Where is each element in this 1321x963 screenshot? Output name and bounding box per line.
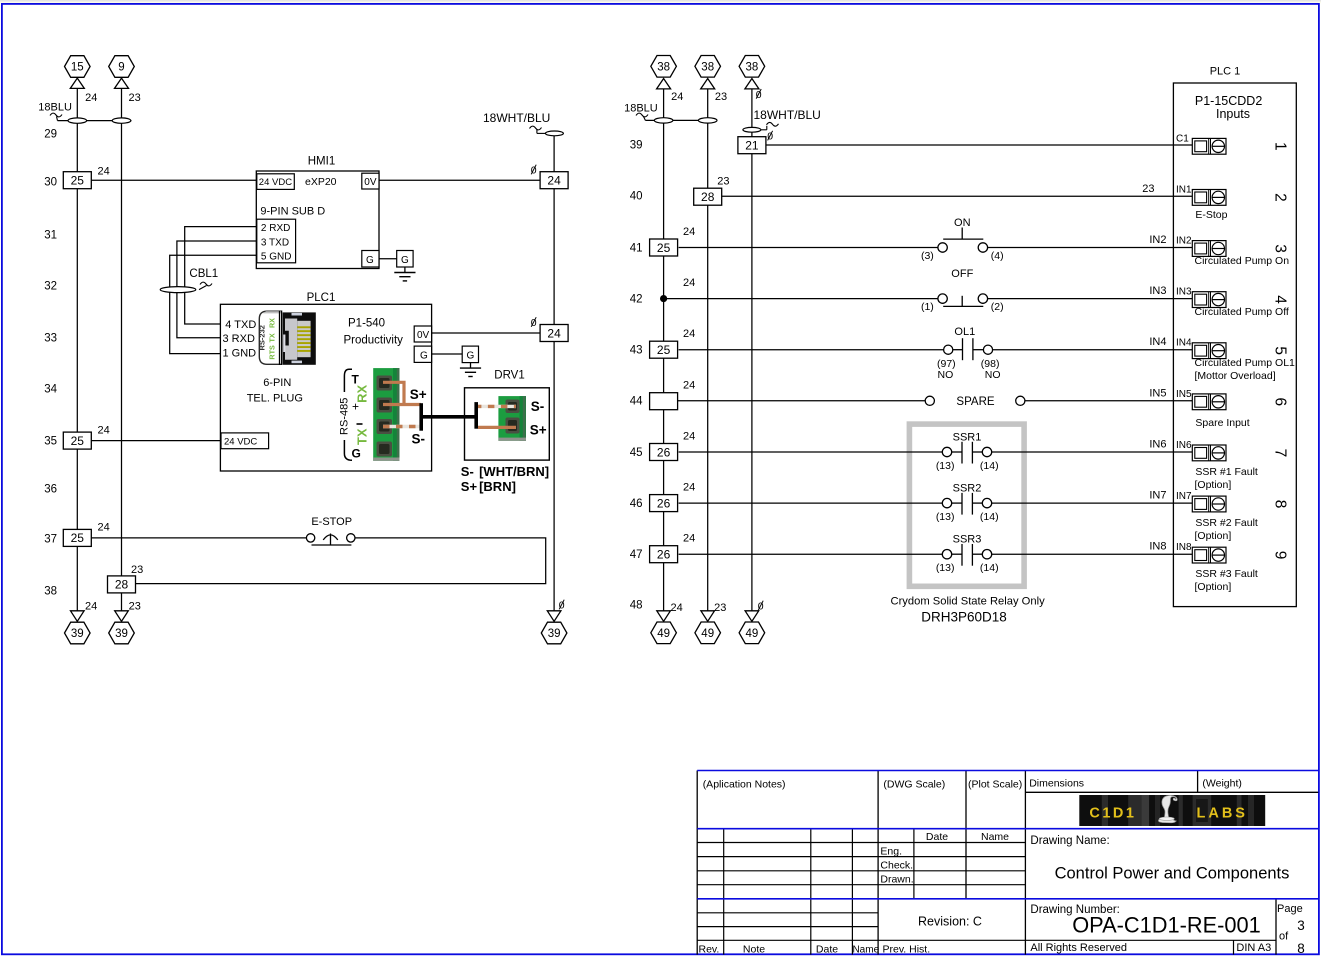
svg-text:25: 25 xyxy=(71,531,85,545)
svg-text:IN1: IN1 xyxy=(1176,184,1192,195)
svg-text:Page: Page xyxy=(1277,903,1303,915)
source arrow wire 24 from page 15 xyxy=(65,56,91,78)
wire PLC G to ground G xyxy=(432,353,463,355)
svg-text:24: 24 xyxy=(85,601,97,613)
svg-text:HMI1: HMI1 xyxy=(308,156,335,168)
C1D1 LABS logo xyxy=(1079,795,1265,826)
source arrow wire 23 from page 9 xyxy=(109,56,135,78)
svg-text:23: 23 xyxy=(714,602,726,614)
svg-text:NO: NO xyxy=(938,369,954,381)
svg-text:Drawn.: Drawn. xyxy=(880,874,913,886)
svg-text:E-Stop: E-Stop xyxy=(1195,209,1227,221)
svg-text:Eng.: Eng. xyxy=(880,846,902,858)
svg-text:Circulated Pump Off: Circulated Pump Off xyxy=(1195,306,1289,318)
svg-text:36: 36 xyxy=(44,484,57,496)
svg-text:G: G xyxy=(420,351,428,362)
svg-text:24: 24 xyxy=(547,174,561,188)
svg-text:IN3: IN3 xyxy=(1149,285,1166,297)
svg-text:IN8: IN8 xyxy=(1176,542,1192,553)
svg-text:Dimensions: Dimensions xyxy=(1029,777,1084,789)
svg-text:IN2: IN2 xyxy=(1176,236,1192,247)
wire: left rail net 24 xyxy=(76,88,78,610)
svg-text:RX: RX xyxy=(355,384,370,402)
svg-text:Check.: Check. xyxy=(880,860,913,872)
svg-text:24: 24 xyxy=(671,602,683,614)
svg-text:SSR3: SSR3 xyxy=(953,534,982,546)
wire S- white/brown (PLC side) xyxy=(383,425,421,428)
svg-text:[Mottor Overload]: [Mottor Overload] xyxy=(1195,370,1276,382)
svg-text:P1-540: P1-540 xyxy=(348,318,385,330)
svg-text:(1): (1) xyxy=(921,301,934,313)
svg-text:(14): (14) xyxy=(980,460,999,472)
rung 41 wire 24 to ON button xyxy=(679,247,938,249)
reference box 25 (row 30) xyxy=(63,172,91,189)
svg-text:(14): (14) xyxy=(980,562,999,574)
svg-text:OPA-C1D1-RE-001: OPA-C1D1-RE-001 xyxy=(1072,912,1261,937)
ground symbol (HMI) xyxy=(404,267,406,273)
svg-text:40: 40 xyxy=(630,191,643,203)
svg-text:46: 46 xyxy=(630,498,643,510)
svg-text:IN8: IN8 xyxy=(1149,541,1166,553)
svg-text:7: 7 xyxy=(1271,449,1288,458)
svg-text:6: 6 xyxy=(1271,397,1288,406)
rung 33 wire PLC 0V to net 0 xyxy=(432,332,540,334)
svg-text:(4): (4) xyxy=(991,250,1004,262)
svg-text:OL1: OL1 xyxy=(954,326,975,338)
svg-text:25: 25 xyxy=(71,174,85,188)
reference box 26 (row 47) xyxy=(650,546,678,563)
svg-text:29: 29 xyxy=(44,129,57,141)
rung 40 wire 23 to PLC IN1 xyxy=(722,195,1193,197)
wire HMI 2RXD to PLC 4TXD xyxy=(185,227,257,324)
rung 44 wire 24 to SPARE xyxy=(677,400,925,402)
svg-text:33: 33 xyxy=(44,333,57,345)
svg-text:24: 24 xyxy=(98,166,110,178)
svg-text:4 TXD: 4 TXD xyxy=(225,319,256,331)
svg-text:IN5: IN5 xyxy=(1149,387,1166,399)
svg-text:3 RXD: 3 RXD xyxy=(223,333,255,345)
svg-text:IN2: IN2 xyxy=(1149,234,1166,246)
svg-text:LABS: LABS xyxy=(1197,805,1248,821)
svg-text:28: 28 xyxy=(115,578,129,592)
svg-text:24: 24 xyxy=(683,379,695,391)
svg-text:38: 38 xyxy=(44,586,57,598)
svg-text:23: 23 xyxy=(131,564,143,576)
svg-text:24: 24 xyxy=(683,277,695,289)
svg-text:SSR #2 Fault: SSR #2 Fault xyxy=(1195,517,1258,529)
svg-text:(13): (13) xyxy=(936,460,955,472)
svg-text:eXP20: eXP20 xyxy=(305,176,337,188)
svg-text:Prev. Hist.: Prev. Hist. xyxy=(883,944,931,956)
svg-text:24: 24 xyxy=(671,91,683,103)
wire: rail net 23 (right section) xyxy=(707,89,709,611)
svg-text:23: 23 xyxy=(129,92,141,104)
svg-text:IN4: IN4 xyxy=(1176,338,1192,349)
reference box 26 (row 45) xyxy=(650,444,678,461)
svg-text:Date: Date xyxy=(816,944,838,956)
svg-text:OFF: OFF xyxy=(951,268,973,280)
PLC input card P1-15CDD2 xyxy=(1173,83,1296,607)
svg-text:49: 49 xyxy=(657,628,670,640)
wire SPARE to PLC IN5 xyxy=(1025,400,1192,402)
svg-text:39: 39 xyxy=(71,628,84,640)
svg-text:IN6: IN6 xyxy=(1149,439,1166,451)
wire: rail net 0 (right section) xyxy=(751,89,753,611)
svg-text:of: of xyxy=(1279,931,1289,943)
wire HMI G to ground G xyxy=(379,258,397,260)
svg-text:G: G xyxy=(352,447,361,461)
thick shield wire to DRV1 xyxy=(421,415,476,419)
svg-text:18BLU: 18BLU xyxy=(624,102,658,114)
svg-text:PLC 1: PLC 1 xyxy=(1210,66,1241,78)
svg-text:IN7: IN7 xyxy=(1149,490,1166,502)
svg-text:Name: Name xyxy=(852,945,879,956)
svg-text:18BLU: 18BLU xyxy=(38,102,72,114)
svg-text:38: 38 xyxy=(657,62,670,74)
svg-text:G: G xyxy=(401,255,409,266)
wire OL1 to PLC IN4 xyxy=(993,349,1193,351)
svg-text:Crydom Solid State Relay Only: Crydom Solid State Relay Only xyxy=(890,596,1045,608)
svg-text:Note: Note xyxy=(743,944,765,956)
svg-text:30: 30 xyxy=(44,177,57,189)
svg-text:34: 34 xyxy=(44,384,57,396)
svg-text:39: 39 xyxy=(115,628,128,640)
svg-text:Circulated Pump OL1: Circulated Pump OL1 xyxy=(1195,357,1296,369)
svg-text:18WHT/BLU: 18WHT/BLU xyxy=(483,111,550,125)
svg-text:26: 26 xyxy=(657,548,671,562)
svg-text:[Option]: [Option] xyxy=(1195,479,1232,491)
reference box 28 (row 38) xyxy=(108,576,136,593)
shield bar (PLC side) xyxy=(419,403,423,431)
svg-text:SPARE: SPARE xyxy=(956,396,994,408)
svg-text:24: 24 xyxy=(547,326,561,340)
svg-text:S+: S+ xyxy=(530,422,547,437)
svg-text:C1: C1 xyxy=(1176,133,1189,144)
svg-text:18WHT/BLU: 18WHT/BLU xyxy=(754,108,821,122)
svg-text:DRH3P60D18: DRH3P60D18 xyxy=(921,610,1007,625)
svg-text:24 VDC: 24 VDC xyxy=(224,436,257,447)
title block xyxy=(696,771,698,955)
reference box 25 (row 41) xyxy=(650,239,678,256)
svg-text:38: 38 xyxy=(746,62,759,74)
svg-text:Date: Date xyxy=(926,831,948,843)
svg-text:(14): (14) xyxy=(980,511,999,523)
svg-text:24: 24 xyxy=(98,522,110,534)
HMI1 terminal 0V xyxy=(362,173,379,189)
svg-text:25: 25 xyxy=(71,434,85,448)
wire E-STOP to rung 38 xyxy=(136,538,546,584)
svg-text:Name: Name xyxy=(981,831,1009,843)
svg-text:(13): (13) xyxy=(936,562,955,574)
svg-text:C1D1: C1D1 xyxy=(1089,805,1136,821)
rung 30 wire 24 to HMI1 xyxy=(91,179,256,181)
svg-text:24: 24 xyxy=(683,328,695,340)
svg-text:SSR #1 Fault: SSR #1 Fault xyxy=(1195,466,1258,478)
svg-text:0V: 0V xyxy=(364,177,377,188)
svg-text:IN6: IN6 xyxy=(1176,440,1192,451)
RS-485 port bracket xyxy=(344,369,352,392)
rung 45 wire 24 to SSR1 xyxy=(679,451,943,453)
svg-text:2: 2 xyxy=(1271,193,1288,202)
svg-text:IN5: IN5 xyxy=(1176,389,1192,400)
svg-text:(Weight): (Weight) xyxy=(1202,777,1241,789)
reference box 24 (row 30, net 0) xyxy=(540,172,568,189)
svg-text:0V: 0V xyxy=(417,330,430,341)
svg-text:S+: S+ xyxy=(410,387,427,402)
RJ45 6-pin telephone plug graphic xyxy=(259,311,281,364)
svg-text:24: 24 xyxy=(683,482,695,494)
svg-text:23: 23 xyxy=(715,91,727,103)
svg-text:[WHT/BRN]: [WHT/BRN] xyxy=(479,464,549,479)
svg-text:S-: S- xyxy=(412,432,426,447)
svg-text:IN3: IN3 xyxy=(1176,287,1192,298)
wire S+ copper (DRV side) xyxy=(478,426,516,429)
svg-text:PLC1: PLC1 xyxy=(307,292,336,304)
svg-text:Revision: C: Revision: C xyxy=(918,915,982,929)
svg-text:24: 24 xyxy=(683,226,695,238)
shield bar (DRV side) xyxy=(474,402,478,429)
svg-text:S+: S+ xyxy=(461,479,478,494)
svg-text:21: 21 xyxy=(745,139,759,153)
svg-text:3: 3 xyxy=(1297,918,1305,933)
svg-text:RX: RX xyxy=(267,318,276,328)
svg-text:(Plot Scale): (Plot Scale) xyxy=(968,779,1022,791)
svg-text:24: 24 xyxy=(85,92,97,104)
svg-text:48: 48 xyxy=(630,600,643,612)
reference box (row 44, empty) xyxy=(650,393,678,410)
wire: rail net 24 (right section) xyxy=(663,89,665,611)
svg-text:24 VDC: 24 VDC xyxy=(259,177,292,188)
svg-text:Control Power and Components: Control Power and Components xyxy=(1055,865,1290,883)
svg-text:TX: TX xyxy=(355,428,370,445)
svg-text:Circulated Pump On: Circulated Pump On xyxy=(1195,255,1290,267)
svg-text:ON: ON xyxy=(954,217,971,229)
svg-text:39: 39 xyxy=(630,140,643,152)
reference box 25 (row 43) xyxy=(650,341,678,358)
svg-text:23: 23 xyxy=(129,601,141,613)
svg-text:(Aplication Notes): (Aplication Notes) xyxy=(703,779,786,791)
top screen strips xyxy=(0,0,1321,2)
svg-text:[BRN]: [BRN] xyxy=(479,479,516,494)
svg-text:[Option]: [Option] xyxy=(1195,581,1232,593)
svg-text:DIN A3: DIN A3 xyxy=(1236,942,1271,954)
rung 39 wire to PLC C1 xyxy=(764,144,1193,146)
svg-text:9: 9 xyxy=(1271,551,1288,560)
svg-text:26: 26 xyxy=(657,496,671,510)
rung 43 wire 24 to OL1 xyxy=(679,349,944,351)
junction dot row 42 xyxy=(660,295,667,302)
svg-text:25: 25 xyxy=(657,241,671,255)
svg-text:49: 49 xyxy=(701,628,714,640)
svg-text:47: 47 xyxy=(630,549,643,561)
rung 37 wire 24 to E-STOP xyxy=(91,537,306,539)
rung 42 wire 24 to OFF button xyxy=(664,298,938,300)
svg-text:8: 8 xyxy=(1271,500,1288,509)
svg-text:39: 39 xyxy=(548,628,561,640)
svg-text:RS-485: RS-485 xyxy=(339,398,351,435)
svg-text:NO: NO xyxy=(985,369,1001,381)
svg-text:DRV1: DRV1 xyxy=(494,369,524,381)
svg-text:Rev.: Rev. xyxy=(699,944,720,956)
svg-text:9: 9 xyxy=(118,62,124,74)
wire ON to PLC IN2 xyxy=(988,247,1193,249)
svg-text:SSR1: SSR1 xyxy=(953,432,982,444)
svg-text:25: 25 xyxy=(657,343,671,357)
svg-text:(2): (2) xyxy=(991,301,1004,313)
svg-text:(13): (13) xyxy=(936,511,955,523)
PLC1 terminal 24 VDC xyxy=(221,433,269,449)
svg-text:RS-232: RS-232 xyxy=(258,325,267,350)
svg-text:IN7: IN7 xyxy=(1176,491,1192,502)
svg-text:3: 3 xyxy=(1271,244,1288,253)
svg-text:TEL. PLUG: TEL. PLUG xyxy=(247,392,303,404)
svg-text:49: 49 xyxy=(746,628,759,640)
svg-text:6-PIN: 6-PIN xyxy=(263,377,291,389)
svg-text:15: 15 xyxy=(71,62,84,74)
wire HMI1 0V to net 0 xyxy=(379,179,540,181)
wire SSR2 to PLC IN7 xyxy=(992,502,1193,504)
wire S- white/brown (DRV side) xyxy=(478,405,516,408)
svg-text:35: 35 xyxy=(44,436,57,448)
svg-text:23: 23 xyxy=(717,176,729,188)
HMI1 terminal G xyxy=(362,251,379,268)
svg-text:24: 24 xyxy=(683,431,695,443)
reference box 25 (row 35) xyxy=(63,432,91,449)
svg-text:24: 24 xyxy=(683,533,695,545)
rung 46 wire 24 to SSR2 xyxy=(679,502,943,504)
svg-text:CBL1: CBL1 xyxy=(189,268,218,280)
svg-text:26: 26 xyxy=(657,445,671,459)
svg-text:1 GND: 1 GND xyxy=(223,348,257,360)
rung 47 wire 24 to SSR3 xyxy=(679,553,943,555)
PLC1 terminal 0V xyxy=(414,326,431,342)
svg-text:Productivity: Productivity xyxy=(344,334,404,346)
reference box 21 (row 39) xyxy=(738,137,766,154)
reference box 28 (row 40) xyxy=(694,188,722,205)
svg-text:32: 32 xyxy=(44,281,57,293)
svg-text:SSR2: SSR2 xyxy=(953,483,982,495)
spare contact SPARE xyxy=(925,396,934,405)
svg-text:Inputs: Inputs xyxy=(1216,107,1250,121)
wire OFF to PLC IN3 xyxy=(988,298,1193,300)
SSR group outline (Crydom) xyxy=(909,424,1024,586)
svg-text:1: 1 xyxy=(1271,142,1288,151)
svg-text:4: 4 xyxy=(1271,295,1288,304)
wire HMI 3TXD to PLC 3RXD xyxy=(177,241,257,338)
svg-text:TX: TX xyxy=(267,333,276,342)
wire: right rail net 0 (left section) xyxy=(553,131,555,611)
source arrows from page 38 xyxy=(651,56,677,78)
svg-text:[Option]: [Option] xyxy=(1195,530,1232,542)
svg-text:(3): (3) xyxy=(921,250,934,262)
svg-text:23: 23 xyxy=(1142,183,1154,195)
svg-text:2 RXD: 2 RXD xyxy=(261,223,290,234)
svg-text:S-: S- xyxy=(461,464,474,479)
svg-text:45: 45 xyxy=(630,447,643,459)
svg-text:T: T xyxy=(352,373,360,387)
wire S+ copper (PLC side) xyxy=(383,382,404,404)
svg-text:S-: S- xyxy=(531,399,545,414)
rung 35 wire 24 to PLC 24VDC xyxy=(91,440,221,442)
svg-text:G: G xyxy=(366,255,374,266)
svg-text:(DWG Scale): (DWG Scale) xyxy=(883,779,945,791)
svg-text:28: 28 xyxy=(701,190,715,204)
svg-text:42: 42 xyxy=(630,294,643,306)
reference box 24 (row 33, net 0) xyxy=(540,325,568,342)
svg-text:All Rights Reserved: All Rights Reserved xyxy=(1030,942,1127,954)
ground symbol (PLC) xyxy=(470,363,472,369)
svg-text:IN4: IN4 xyxy=(1149,336,1166,348)
PLC1 terminal G xyxy=(414,346,431,362)
svg-text:Drawing Name:: Drawing Name: xyxy=(1030,835,1109,847)
svg-text:5: 5 xyxy=(1271,346,1288,355)
svg-text:P1-15CDD2: P1-15CDD2 xyxy=(1195,94,1262,108)
reference box 26 (row 46) xyxy=(650,495,678,512)
svg-text:5 GND: 5 GND xyxy=(261,252,292,263)
DRV1 green terminal block xyxy=(498,396,526,441)
svg-text:44: 44 xyxy=(630,396,643,408)
svg-text:G: G xyxy=(467,351,475,362)
HMI1 terminal 24 VDC xyxy=(257,174,295,190)
svg-text:3 TXD: 3 TXD xyxy=(261,237,289,248)
svg-text:SSR #3 Fault: SSR #3 Fault xyxy=(1195,568,1258,580)
svg-text:RTS: RTS xyxy=(267,345,276,360)
svg-text:37: 37 xyxy=(44,534,57,546)
svg-text:38: 38 xyxy=(701,62,714,74)
ground G box (PLC) xyxy=(462,346,478,363)
RS-485 green terminal block xyxy=(373,368,399,461)
svg-text:E-STOP: E-STOP xyxy=(311,516,352,528)
svg-text:41: 41 xyxy=(630,243,643,255)
wire SSR1 to PLC IN6 xyxy=(992,451,1193,453)
ground G box (HMI) xyxy=(397,251,413,268)
wire SSR3 to PLC IN8 xyxy=(992,553,1193,555)
svg-text:8: 8 xyxy=(1297,941,1305,956)
svg-text:24: 24 xyxy=(98,425,110,437)
reference box 25 (row 37) xyxy=(63,529,91,546)
svg-text:Spare Input: Spare Input xyxy=(1195,417,1249,429)
svg-text:9-PIN SUB D: 9-PIN SUB D xyxy=(260,206,325,218)
svg-text:43: 43 xyxy=(630,345,643,357)
wire: left rail net 23 xyxy=(121,88,123,610)
svg-text:31: 31 xyxy=(44,230,57,242)
wire HMI 5GND to PLC 1GND xyxy=(170,255,257,353)
